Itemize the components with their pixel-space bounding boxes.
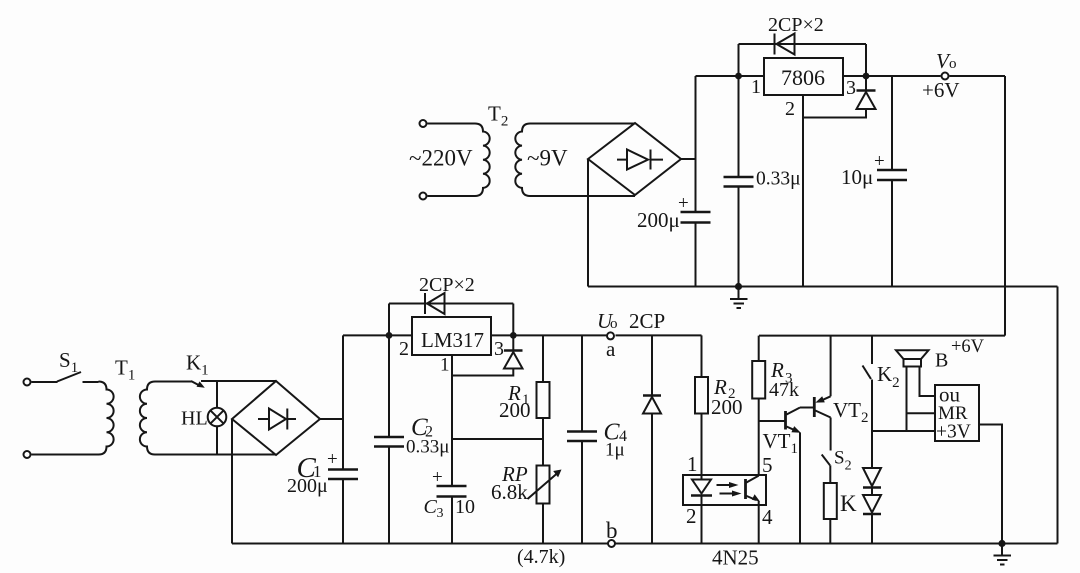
capacitor 200u: [681, 212, 711, 223]
regulator 7806: [764, 58, 843, 95]
svg-text:2: 2: [785, 98, 795, 120]
transformer T2 primary winding: [428, 124, 490, 197]
ground node (bottom right): [998, 540, 1005, 547]
ground node and symbol: [735, 283, 742, 290]
terminal Vo: [942, 73, 949, 80]
svg-text:4: 4: [762, 505, 773, 529]
svg-text:7806: 7806: [781, 65, 825, 90]
svg-text:200: 200: [711, 395, 743, 419]
svg-text:K2: K2: [877, 362, 900, 391]
terminal a / Uo: [607, 332, 614, 339]
svg-text:0.33μ: 0.33μ: [406, 437, 449, 458]
wire bridge-left to ground rail: [587, 159, 589, 287]
svg-text:VT2: VT2: [833, 398, 869, 426]
relay contact K2: [871, 336, 873, 364]
resistor R1: [542, 335, 544, 439]
svg-text:+3V: +3V: [936, 422, 971, 443]
svg-text:B: B: [935, 350, 948, 372]
wire bridge-right to 200u branch: [681, 158, 696, 160]
transformer T1 primary winding: [32, 382, 114, 455]
wire 7806 output to Vo: [843, 75, 1005, 77]
svg-text:+: +: [874, 151, 885, 172]
optocoupler light arrows: [717, 484, 732, 486]
diode D2 (below K2): [863, 495, 881, 513]
svg-text:6.8k: 6.8k: [491, 480, 528, 504]
svg-text:K1: K1: [186, 351, 209, 379]
svg-text:3: 3: [437, 506, 444, 521]
terminal b: [608, 540, 615, 547]
ground rail (top section): [588, 286, 1058, 288]
svg-text:C: C: [424, 496, 438, 518]
svg-text:(4.7k): (4.7k): [517, 546, 565, 568]
svg-text:LM317: LM317: [421, 328, 484, 352]
svg-text:2CP×2: 2CP×2: [419, 274, 475, 296]
LM317 input rail: [343, 334, 412, 336]
capacitor C3: [437, 486, 467, 497]
switch S1 input terminals: [24, 379, 31, 386]
svg-text:HL: HL: [181, 408, 208, 430]
junction node LM317 input: [386, 332, 393, 339]
svg-text:S2: S2: [834, 448, 852, 474]
diode 2CP: [651, 335, 653, 543]
svg-text:o: o: [949, 56, 957, 72]
svg-text:+: +: [327, 449, 338, 470]
svg-text:+6V: +6V: [951, 337, 985, 357]
svg-text:3: 3: [494, 338, 504, 360]
+6V rail: [759, 335, 1005, 337]
diode at 7806 output: [863, 73, 870, 80]
wire right edge (top ground to bottom rail): [1057, 287, 1059, 544]
wire bridge-left down to bottom rail: [231, 419, 233, 544]
svg-text:T2: T2: [488, 102, 508, 130]
switch S2: [822, 455, 830, 466]
svg-text:2: 2: [399, 338, 409, 360]
capacitor 10u: [891, 76, 893, 287]
svg-text:+: +: [678, 193, 689, 214]
transformer T1 secondary winding: [140, 382, 276, 455]
svg-text:1: 1: [751, 76, 761, 98]
wire 7806 pin2 to ground: [802, 95, 804, 287]
diode at LM317 output: [512, 335, 514, 350]
LM317 output rail to terminal a: [491, 334, 608, 336]
svg-text:T1: T1: [115, 356, 135, 384]
capacitor C2: [388, 335, 390, 543]
optocoupler LED: [692, 480, 711, 494]
svg-text:200: 200: [499, 398, 531, 422]
svg-text:2: 2: [686, 504, 697, 528]
svg-text:2CP×2: 2CP×2: [768, 14, 824, 36]
svg-text:S1: S1: [59, 348, 78, 376]
optocoupler phototransistor: [744, 479, 747, 499]
svg-text:2CP: 2CP: [629, 309, 665, 333]
capacitor C1: [342, 335, 344, 543]
svg-text:~220V: ~220V: [409, 146, 473, 171]
junction node at 7806 pin1: [735, 73, 742, 80]
svg-text:47k: 47k: [769, 379, 799, 401]
svg-text:0.33μ: 0.33μ: [756, 169, 801, 190]
optocoupler 4N25 body: [683, 475, 766, 505]
LM317 ADJ line with C3: [451, 355, 453, 544]
svg-text:1: 1: [687, 452, 698, 476]
svg-text:+6V: +6V: [922, 78, 960, 102]
svg-text:a: a: [606, 337, 616, 361]
svg-text:VT1: VT1: [763, 429, 799, 457]
wire input rail to 7806: [696, 75, 765, 77]
svg-text:3: 3: [846, 77, 856, 99]
relay coil K: [824, 483, 837, 519]
svg-text:4N25: 4N25: [712, 546, 759, 570]
resistor R2: [701, 335, 703, 479]
svg-text:K: K: [840, 491, 857, 516]
wire Vo down to +6V rail: [1004, 76, 1006, 336]
svg-text:o: o: [610, 316, 618, 332]
switch S1: [32, 381, 58, 383]
wire music IC to ground node: [979, 425, 1002, 544]
svg-text:b: b: [606, 518, 618, 543]
svg-text:5: 5: [762, 453, 773, 477]
diode 2CP×2 (over 7806): [739, 44, 867, 76]
svg-text:10: 10: [455, 496, 475, 518]
speaker B: [896, 350, 929, 359]
transistor VT2: [813, 397, 816, 417]
relay contact K1: [191, 381, 199, 385]
diode 2CP×2 (over LM317): [389, 304, 513, 336]
regulator LM317: [412, 317, 491, 355]
lamp HL: [216, 381, 218, 455]
svg-text:+: +: [432, 467, 443, 488]
wire 200u branch vertical: [695, 76, 697, 287]
transistor VT1: [759, 420, 786, 422]
bridge rectifier B1: [232, 381, 320, 455]
svg-text:10μ: 10μ: [841, 165, 873, 189]
capacitor 0.33u (7806 input): [738, 76, 740, 287]
wire K2 junction to music IC: [872, 430, 935, 432]
svg-text:1μ: 1μ: [605, 440, 625, 461]
potentiometer RP: [542, 439, 544, 544]
wire VT1 collector to VT2 base: [800, 407, 814, 409]
svg-text:~9V: ~9V: [527, 146, 568, 171]
svg-text:1: 1: [440, 355, 450, 376]
svg-text:200μ: 200μ: [637, 208, 680, 232]
wire output rail a to R2: [616, 334, 702, 336]
transformer T2 secondary winding: [515, 124, 635, 197]
bottom rail: [232, 543, 1058, 545]
transformer T2 input terminals: [420, 120, 427, 127]
bridge rectifier B2: [588, 123, 681, 195]
wire bridge-right to C1 branch: [320, 418, 343, 420]
diode D1 (below K2): [863, 468, 881, 486]
capacitor C4: [581, 335, 583, 543]
music IC box ou MR +3V: [935, 385, 979, 441]
svg-text:200μ: 200μ: [287, 475, 328, 497]
resistor R3: [758, 336, 760, 475]
wire ADJ to R1/RP junction: [452, 438, 543, 440]
